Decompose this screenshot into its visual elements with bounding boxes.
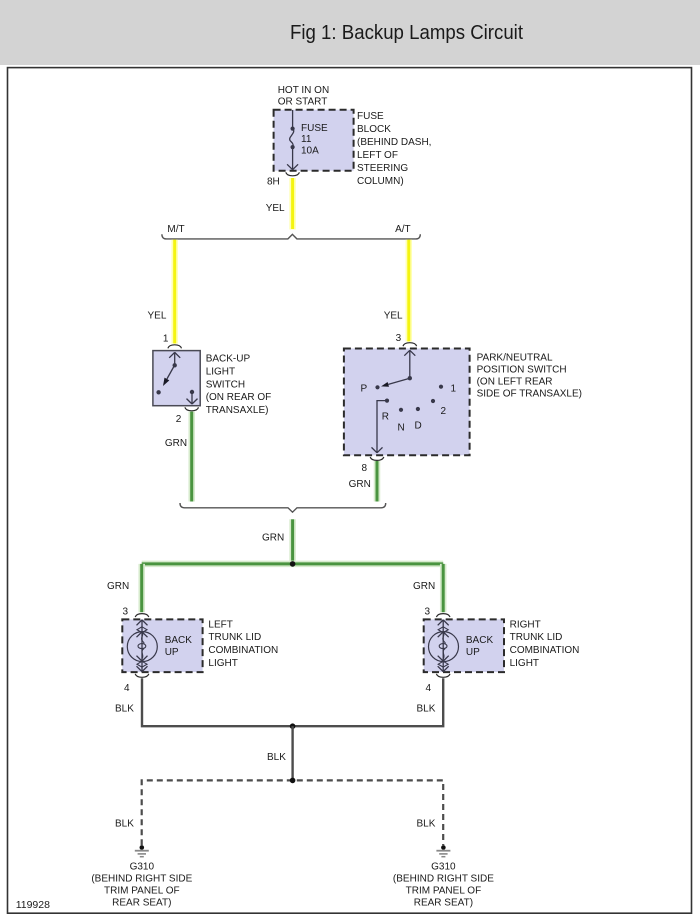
svg-text:RIGHT: RIGHT — [510, 619, 541, 630]
svg-text:(ON LEFT REAR: (ON LEFT REAR — [477, 376, 553, 387]
svg-text:BLK: BLK — [115, 819, 134, 830]
svg-text:11: 11 — [301, 134, 312, 145]
svg-text:COMBINATION: COMBINATION — [510, 645, 580, 656]
svg-text:FUSE: FUSE — [357, 111, 384, 122]
svg-text:3: 3 — [396, 333, 402, 344]
svg-text:BLK: BLK — [115, 704, 134, 715]
svg-text:REAR SEAT): REAR SEAT) — [414, 898, 473, 909]
svg-text:COMBINATION: COMBINATION — [208, 645, 278, 656]
svg-text:BACK-UP: BACK-UP — [206, 354, 251, 365]
svg-text:3: 3 — [425, 607, 431, 618]
svg-text:P: P — [361, 383, 368, 394]
svg-text:FUSE: FUSE — [301, 123, 328, 134]
svg-text:3: 3 — [123, 607, 129, 618]
svg-text:HOT IN ON: HOT IN ON — [278, 85, 329, 96]
svg-text:BACK: BACK — [466, 635, 494, 646]
svg-text:LEFT OF: LEFT OF — [357, 150, 398, 161]
svg-text:4: 4 — [426, 683, 432, 694]
svg-text:OR START: OR START — [278, 96, 328, 107]
svg-text:GRN: GRN — [107, 581, 129, 592]
svg-text:A/T: A/T — [395, 224, 411, 235]
svg-text:BACK: BACK — [165, 635, 193, 646]
svg-text:119928: 119928 — [16, 899, 50, 911]
svg-text:Fig 1: Backup Lamps Circuit: Fig 1: Backup Lamps Circuit — [290, 21, 523, 44]
svg-text:8: 8 — [362, 463, 368, 474]
svg-text:GRN: GRN — [262, 532, 284, 543]
svg-text:POSITION SWITCH: POSITION SWITCH — [477, 364, 567, 375]
svg-text:YEL: YEL — [384, 311, 403, 322]
svg-text:LIGHT: LIGHT — [208, 658, 237, 669]
svg-text:LIGHT: LIGHT — [206, 366, 235, 377]
svg-text:M/T: M/T — [167, 224, 184, 235]
svg-text:SIDE OF TRANSAXLE): SIDE OF TRANSAXLE) — [477, 388, 582, 399]
svg-text:N: N — [398, 423, 405, 434]
svg-text:UP: UP — [466, 647, 480, 658]
svg-text:UP: UP — [165, 647, 179, 658]
svg-text:TRIM PANEL OF: TRIM PANEL OF — [406, 886, 482, 897]
svg-text:YEL: YEL — [266, 203, 285, 214]
svg-text:8H: 8H — [267, 176, 280, 187]
svg-text:2: 2 — [441, 406, 447, 417]
svg-text:REAR SEAT): REAR SEAT) — [112, 898, 171, 909]
svg-text:GRN: GRN — [349, 479, 371, 490]
svg-text:D: D — [415, 421, 422, 432]
svg-text:GRN: GRN — [413, 581, 435, 592]
svg-text:R: R — [382, 412, 389, 423]
svg-text:BLK: BLK — [267, 752, 286, 763]
svg-text:GRN: GRN — [165, 438, 187, 449]
svg-text:LEFT: LEFT — [208, 619, 232, 630]
svg-text:BLK: BLK — [417, 704, 436, 715]
svg-text:LIGHT: LIGHT — [510, 658, 539, 669]
svg-text:4: 4 — [124, 683, 130, 694]
svg-text:SWITCH: SWITCH — [206, 379, 245, 390]
svg-text:BLK: BLK — [417, 819, 436, 830]
svg-text:TRIM PANEL OF: TRIM PANEL OF — [104, 886, 180, 897]
svg-text:2: 2 — [176, 414, 182, 425]
svg-text:1: 1 — [451, 383, 457, 394]
svg-text:TRUNK LID: TRUNK LID — [510, 632, 563, 643]
svg-text:BLOCK: BLOCK — [357, 124, 391, 135]
svg-text:TRANSAXLE): TRANSAXLE) — [206, 405, 269, 416]
svg-text:(BEHIND RIGHT SIDE: (BEHIND RIGHT SIDE — [393, 874, 494, 885]
svg-text:STEERING: STEERING — [357, 163, 408, 174]
svg-text:G310: G310 — [431, 862, 456, 873]
svg-text:(ON REAR OF: (ON REAR OF — [206, 392, 272, 403]
svg-text:(BEHIND RIGHT SIDE: (BEHIND RIGHT SIDE — [91, 874, 192, 885]
svg-text:G310: G310 — [130, 862, 155, 873]
svg-text:PARK/NEUTRAL: PARK/NEUTRAL — [477, 352, 553, 363]
svg-text:YEL: YEL — [148, 311, 167, 322]
svg-text:10A: 10A — [301, 146, 319, 157]
svg-text:COLUMN): COLUMN) — [357, 176, 404, 187]
svg-text:TRUNK LID: TRUNK LID — [208, 632, 261, 643]
svg-text:(BEHIND DASH,: (BEHIND DASH, — [357, 137, 431, 148]
svg-text:1: 1 — [163, 334, 169, 345]
